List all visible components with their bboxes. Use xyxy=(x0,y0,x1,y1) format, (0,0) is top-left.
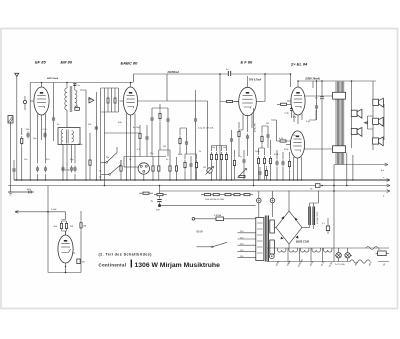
wire x289.5 xyxy=(289,152,291,180)
wire x264.5 xyxy=(259,148,265,180)
svg-text:1M: 1M xyxy=(266,123,269,125)
lamp 1 xyxy=(336,253,341,258)
resistor ps row2 b xyxy=(265,168,267,178)
small cap on x96 xyxy=(95,125,98,132)
wire x48 long xyxy=(47,186,49,273)
electrode triangle mixer xyxy=(89,98,94,104)
wire long vertical x220 xyxy=(219,74,221,180)
wire secondary down legs xyxy=(347,153,353,186)
cap phono out xyxy=(77,259,85,264)
speaker LS2 xyxy=(351,109,362,118)
wire x262 xyxy=(261,126,263,148)
socket circle 1 xyxy=(257,191,262,218)
resistor ps2 xyxy=(263,156,265,166)
wire x81 xyxy=(80,211,82,273)
transformer secondary heater xyxy=(270,240,275,254)
resistor tone a xyxy=(233,158,235,168)
capacitor x316.5 xyxy=(315,104,318,111)
svg-text:B250 C150: B250 C150 xyxy=(296,240,310,244)
svg-text:1M: 1M xyxy=(70,226,73,228)
wire left column x10.5 xyxy=(10,123,12,180)
resistor bank B xyxy=(215,152,217,162)
capacitor 2n osc xyxy=(73,84,81,87)
speaker LS3 xyxy=(373,117,384,126)
scattered value labels xyxy=(24,99,296,169)
wire x244 xyxy=(243,150,245,180)
wire mains lower with switch xyxy=(197,246,213,248)
svg-text:25μ: 25μ xyxy=(293,135,296,137)
wire x316.5 column xyxy=(316,81,318,120)
capacitor tone b xyxy=(242,158,245,165)
svg-text:470k: 470k xyxy=(274,154,278,156)
output transformer core xyxy=(336,82,344,165)
resistor bank mid a xyxy=(152,164,154,174)
svg-text:0,1μ 2k 1k5 10k: 0,1μ 2k 1k5 10k xyxy=(198,128,214,130)
svg-text:100k: 100k xyxy=(255,151,259,153)
resistor det b xyxy=(159,111,161,121)
wire x268 xyxy=(262,126,268,148)
wire speaker right edge xyxy=(383,104,385,140)
speaker LS4 xyxy=(351,127,362,136)
svg-text:5n: 5n xyxy=(166,159,168,161)
capacitor ps row2 a xyxy=(258,170,261,177)
rail end arrows a/b xyxy=(381,163,390,198)
capacitor af mid2 xyxy=(185,140,188,147)
heater EF86 xyxy=(312,248,320,252)
transformer secondary HT xyxy=(270,220,275,233)
wire x86 xyxy=(80,90,86,180)
volume pot circle xyxy=(206,167,214,175)
wire x168 xyxy=(152,108,168,157)
svg-text:EABC 80: EABC 80 xyxy=(121,61,139,66)
svg-text:1M: 1M xyxy=(163,146,166,148)
capacitor 10k node xyxy=(26,132,29,139)
wire speaker column left xyxy=(351,81,353,148)
tube V3 EF86 xyxy=(234,76,262,132)
resistor af mid xyxy=(179,136,181,146)
junction dots buses xyxy=(16,80,352,186)
electrolytic 50u a xyxy=(309,203,311,228)
resistor phono grid a xyxy=(60,221,62,231)
cap mid 230 xyxy=(230,137,233,144)
junction dot x316 xyxy=(316,80,318,82)
resistor 270 xyxy=(75,106,80,110)
resistor sg EF86 xyxy=(261,134,263,144)
resistor ps6 xyxy=(288,159,290,169)
svg-text:1n: 1n xyxy=(129,159,131,161)
wire supply bus xyxy=(8,185,390,187)
wire band switch area xyxy=(100,147,122,179)
wire phono tube top xyxy=(62,220,67,236)
resistor af c xyxy=(195,160,197,170)
svg-text:D: D xyxy=(100,176,102,179)
wire x226.5 xyxy=(212,146,227,181)
svg-text:1306 W Mirjam Musiktruhe: 1306 W Mirjam Musiktruhe xyxy=(135,262,221,269)
wire x75 drop xyxy=(74,145,76,181)
resistor 50ohm box xyxy=(376,249,389,256)
capacitor cathode EF85 b xyxy=(44,166,47,173)
wire third rail left stub xyxy=(8,191,34,193)
rotated tube labels under heater chain xyxy=(276,258,386,268)
capacitor 470p b xyxy=(70,166,73,173)
capacitor on x53.5 xyxy=(52,116,55,123)
capacitor det a xyxy=(150,116,153,123)
grid resistor EF86 xyxy=(220,100,239,102)
wire x185 xyxy=(184,154,186,180)
glass fuse Gl on bus xyxy=(315,184,320,188)
socket circle 2 xyxy=(270,191,275,217)
coupling RC to EL84 grid xyxy=(277,98,297,119)
antenna arrow xyxy=(15,73,19,76)
wire x180 xyxy=(179,128,181,154)
heater EL84 pair xyxy=(324,248,332,252)
svg-text:0,1μ: 0,1μ xyxy=(285,113,290,115)
oscillator coil L1 xyxy=(65,83,77,181)
capacitor x195.5 xyxy=(194,117,197,124)
tube V2 EABC80 xyxy=(120,83,138,181)
wire anode EF85 column x53.5 xyxy=(53,83,55,142)
cap ps4 xyxy=(275,160,278,167)
tone pot arrow xyxy=(238,169,247,178)
components above socket xyxy=(139,131,141,141)
tube V5 EL84 lower xyxy=(286,131,333,180)
svg-text:2×50μF 350V: 2×50μF 350V xyxy=(316,211,319,224)
wire grid column x30 xyxy=(29,83,31,181)
svg-text:50V: 50V xyxy=(156,210,160,212)
wire x196.5 xyxy=(185,154,197,180)
resistor near switch xyxy=(120,164,122,174)
tube V4 EL84 upper xyxy=(287,81,333,124)
wire phono input line xyxy=(15,212,66,220)
svg-text:EF 85: EF 85 xyxy=(35,60,46,65)
wire x216.5 xyxy=(216,146,218,181)
svg-text:10k: 10k xyxy=(223,147,226,149)
cap ef86 xyxy=(246,134,249,141)
switch mains xyxy=(212,242,227,247)
heater EM80 xyxy=(289,248,297,252)
phase splitter parts xyxy=(257,156,259,166)
IF can T2 xyxy=(58,128,80,181)
capacitor sg xyxy=(266,133,269,140)
svg-text:245V 52mA: 245V 52mA xyxy=(46,77,59,80)
wire EF85 cathode drops xyxy=(38,117,46,180)
wire x322 capacitor to bus (already) junction xyxy=(321,185,323,187)
svg-text:2k: 2k xyxy=(199,151,201,153)
socket EM80 indicator circle xyxy=(124,157,166,181)
vertical x265 anode EF86 xyxy=(262,74,265,102)
wire x170 xyxy=(159,150,170,180)
wire detector to volume x207.5 xyxy=(138,74,208,168)
primary winding box xyxy=(333,92,346,99)
bottom resistor row under bus xyxy=(201,194,253,201)
wire vertical x253.5 xyxy=(253,108,255,186)
cap 0,1 near x328 xyxy=(322,218,330,234)
wire x152 xyxy=(151,108,153,157)
capacitor 2n xyxy=(226,69,231,76)
lamp 2 xyxy=(345,253,350,258)
wire EL84 cathodes join xyxy=(309,81,316,120)
svg-text:0,315A: 0,315A xyxy=(214,214,221,217)
pilot circle A xyxy=(269,254,274,259)
wire x160 xyxy=(159,104,161,150)
transformer core xyxy=(265,216,268,262)
wire x191 xyxy=(190,156,192,180)
wire x96.3 xyxy=(95,92,97,180)
capacitor af b xyxy=(189,162,192,169)
caption bar xyxy=(130,260,132,268)
speaker LS1 xyxy=(373,98,384,107)
capacitor 4u xyxy=(151,200,162,203)
resistor 2,2k left xyxy=(21,136,23,146)
svg-text:24V/52mA: 24V/52mA xyxy=(167,71,180,74)
svg-text:0,1μ: 0,1μ xyxy=(306,121,310,123)
wire caps top xyxy=(310,191,319,204)
svg-text:2n: 2n xyxy=(57,124,59,126)
wire x186.5 xyxy=(180,128,187,154)
resistor 1M x81 xyxy=(80,220,82,230)
svg-text:10n: 10n xyxy=(24,159,27,161)
resistor af a xyxy=(184,160,186,170)
wire transformer top join xyxy=(321,81,323,180)
resistor bank C xyxy=(220,152,222,162)
wire x221.5 xyxy=(221,146,223,181)
wire EL84 top rail xyxy=(298,80,376,82)
wire x334 down to rectifier area xyxy=(333,165,335,249)
input arrow phono xyxy=(15,210,18,213)
svg-text:50μ: 50μ xyxy=(70,159,73,161)
bridge rectifier B250 xyxy=(274,191,309,249)
heater EABC80 xyxy=(301,248,309,252)
svg-text:1M: 1M xyxy=(83,226,86,228)
tube V1 EF85 xyxy=(30,83,49,119)
wire third rail right xyxy=(160,190,390,192)
electrolytic 50u b xyxy=(313,203,315,229)
ferrite antenna coupler xyxy=(8,116,13,124)
wire x147 xyxy=(146,125,148,157)
wire ground bus xyxy=(14,179,390,181)
trimmer top left xyxy=(23,96,26,110)
svg-text:25μ: 25μ xyxy=(238,156,241,158)
wire x211.5 xyxy=(211,146,213,181)
speaker LS5 xyxy=(373,137,384,146)
wire heater bus top xyxy=(267,247,389,249)
svg-text:2M: 2M xyxy=(106,157,109,159)
wire lamps stems xyxy=(335,248,352,262)
mains transformer primary xyxy=(256,218,264,261)
wire x270.5 xyxy=(270,140,272,180)
svg-text:EM 80: EM 80 xyxy=(61,60,73,65)
wire ps row2 xyxy=(260,166,267,180)
junction square 50V xyxy=(156,204,161,211)
resistor x90 xyxy=(89,160,91,165)
resistor phono grid b xyxy=(65,221,67,231)
svg-text:6,8k: 6,8k xyxy=(118,122,122,124)
capacitor left x14 xyxy=(13,160,15,180)
wire speaker column right xyxy=(372,81,374,150)
svg-text:(255V 36mA): (255V 36mA) xyxy=(305,78,320,81)
resistor ps3 xyxy=(269,156,271,166)
svg-text:1M: 1M xyxy=(203,167,206,169)
svg-text:4μ 25μ: 4μ 25μ xyxy=(133,127,141,129)
capacitor 2,2n node xyxy=(43,132,46,139)
IF comb detector xyxy=(101,88,119,186)
svg-text:E F 86: E F 86 xyxy=(241,60,254,65)
capacitor cathode EF85 a xyxy=(36,166,39,173)
svg-text:100k 1M 360 1k 500k: 100k 1M 360 1k 500k xyxy=(205,199,224,201)
junction dots bottom xyxy=(65,272,67,274)
wire screen line y82.5 xyxy=(30,82,133,84)
wire x21.75 xyxy=(21,128,23,180)
svg-text:C: C xyxy=(100,170,102,173)
junction dots top xyxy=(219,73,221,75)
NTC resistor wavy 1 xyxy=(350,260,370,263)
wire volume feed x159.5 xyxy=(160,186,256,206)
heater chain vertical drops xyxy=(288,248,334,262)
svg-text:80 W: 80 W xyxy=(197,230,204,234)
capacitor on x322 xyxy=(315,97,324,100)
svg-text:2× EL 84: 2× EL 84 xyxy=(290,62,308,67)
wire x277 xyxy=(276,150,278,180)
svg-text:2×7V 0,1A: 2×7V 0,1A xyxy=(335,263,345,266)
wire feedback x276.5 xyxy=(271,120,277,141)
wire top coupling line 2n xyxy=(134,74,291,87)
jack arrow mid speakers xyxy=(364,116,374,129)
wire x234.5 xyxy=(234,150,236,180)
wire x90 drop xyxy=(89,133,91,180)
tube V6 phono triode xyxy=(58,231,75,273)
resistor mid c xyxy=(169,164,171,174)
wire mains line xyxy=(195,218,256,220)
wire x258.5 xyxy=(258,148,260,180)
svg-text:470k: 470k xyxy=(284,149,288,151)
ground symbol left xyxy=(8,180,12,195)
capacitor body x14 xyxy=(12,167,15,174)
cap ps5 xyxy=(281,160,284,167)
grid stopper EL84 lower xyxy=(277,138,291,145)
mains terminal circle xyxy=(192,218,195,221)
wire mixer link xyxy=(104,132,140,134)
wire x176.5 xyxy=(176,157,178,180)
svg-text:0,1μF: 0,1μF xyxy=(51,209,57,211)
wire x153 xyxy=(152,157,154,181)
wire long vertical x195.5 xyxy=(195,90,197,180)
resistor bank A xyxy=(210,152,212,162)
svg-text:680k: 680k xyxy=(178,154,182,156)
heater EF85 xyxy=(278,248,286,252)
wire x283 xyxy=(282,152,284,180)
svg-text:70V 0,7mA: 70V 0,7mA xyxy=(249,79,261,82)
wire heater left end xyxy=(266,248,268,262)
svg-text:50k: 50k xyxy=(88,124,91,126)
wire heater bus bottom xyxy=(267,261,389,263)
wire loop bottom xyxy=(48,272,81,274)
resistor bank D xyxy=(225,152,227,162)
wire x247.5 low xyxy=(247,141,249,157)
svg-text:Continental: Continental xyxy=(99,262,127,267)
secondary winding box xyxy=(333,146,346,153)
wire x231.5 xyxy=(231,130,233,180)
capacitor x75 xyxy=(73,166,76,173)
svg-text:470p: 470p xyxy=(65,170,71,172)
fuse mains xyxy=(214,214,224,221)
svg-text:(2. Teil des Schaltbildes): (2. Teil des Schaltbildes) xyxy=(99,253,153,257)
capacitor 100p left rail xyxy=(8,189,34,193)
svg-text:470k 2W: 470k 2W xyxy=(255,122,257,132)
wire x140 xyxy=(139,125,141,157)
wire antenna lead xyxy=(16,77,18,181)
capacitor 470p xyxy=(61,166,64,173)
resistor mid d xyxy=(175,164,177,174)
NTC resistor wavy 2 xyxy=(366,247,378,250)
wire x158.8 xyxy=(158,150,160,180)
resistor mid b xyxy=(158,164,160,174)
wire x239 xyxy=(239,122,243,156)
wire bottom speaker line xyxy=(334,164,388,166)
left bottom resistor row xyxy=(139,192,167,196)
capacitor det c xyxy=(166,117,169,124)
wire x121 xyxy=(120,160,122,180)
cap 147 xyxy=(145,135,148,142)
EF86 cathode parts xyxy=(238,129,240,139)
transformer taps xyxy=(238,231,256,258)
